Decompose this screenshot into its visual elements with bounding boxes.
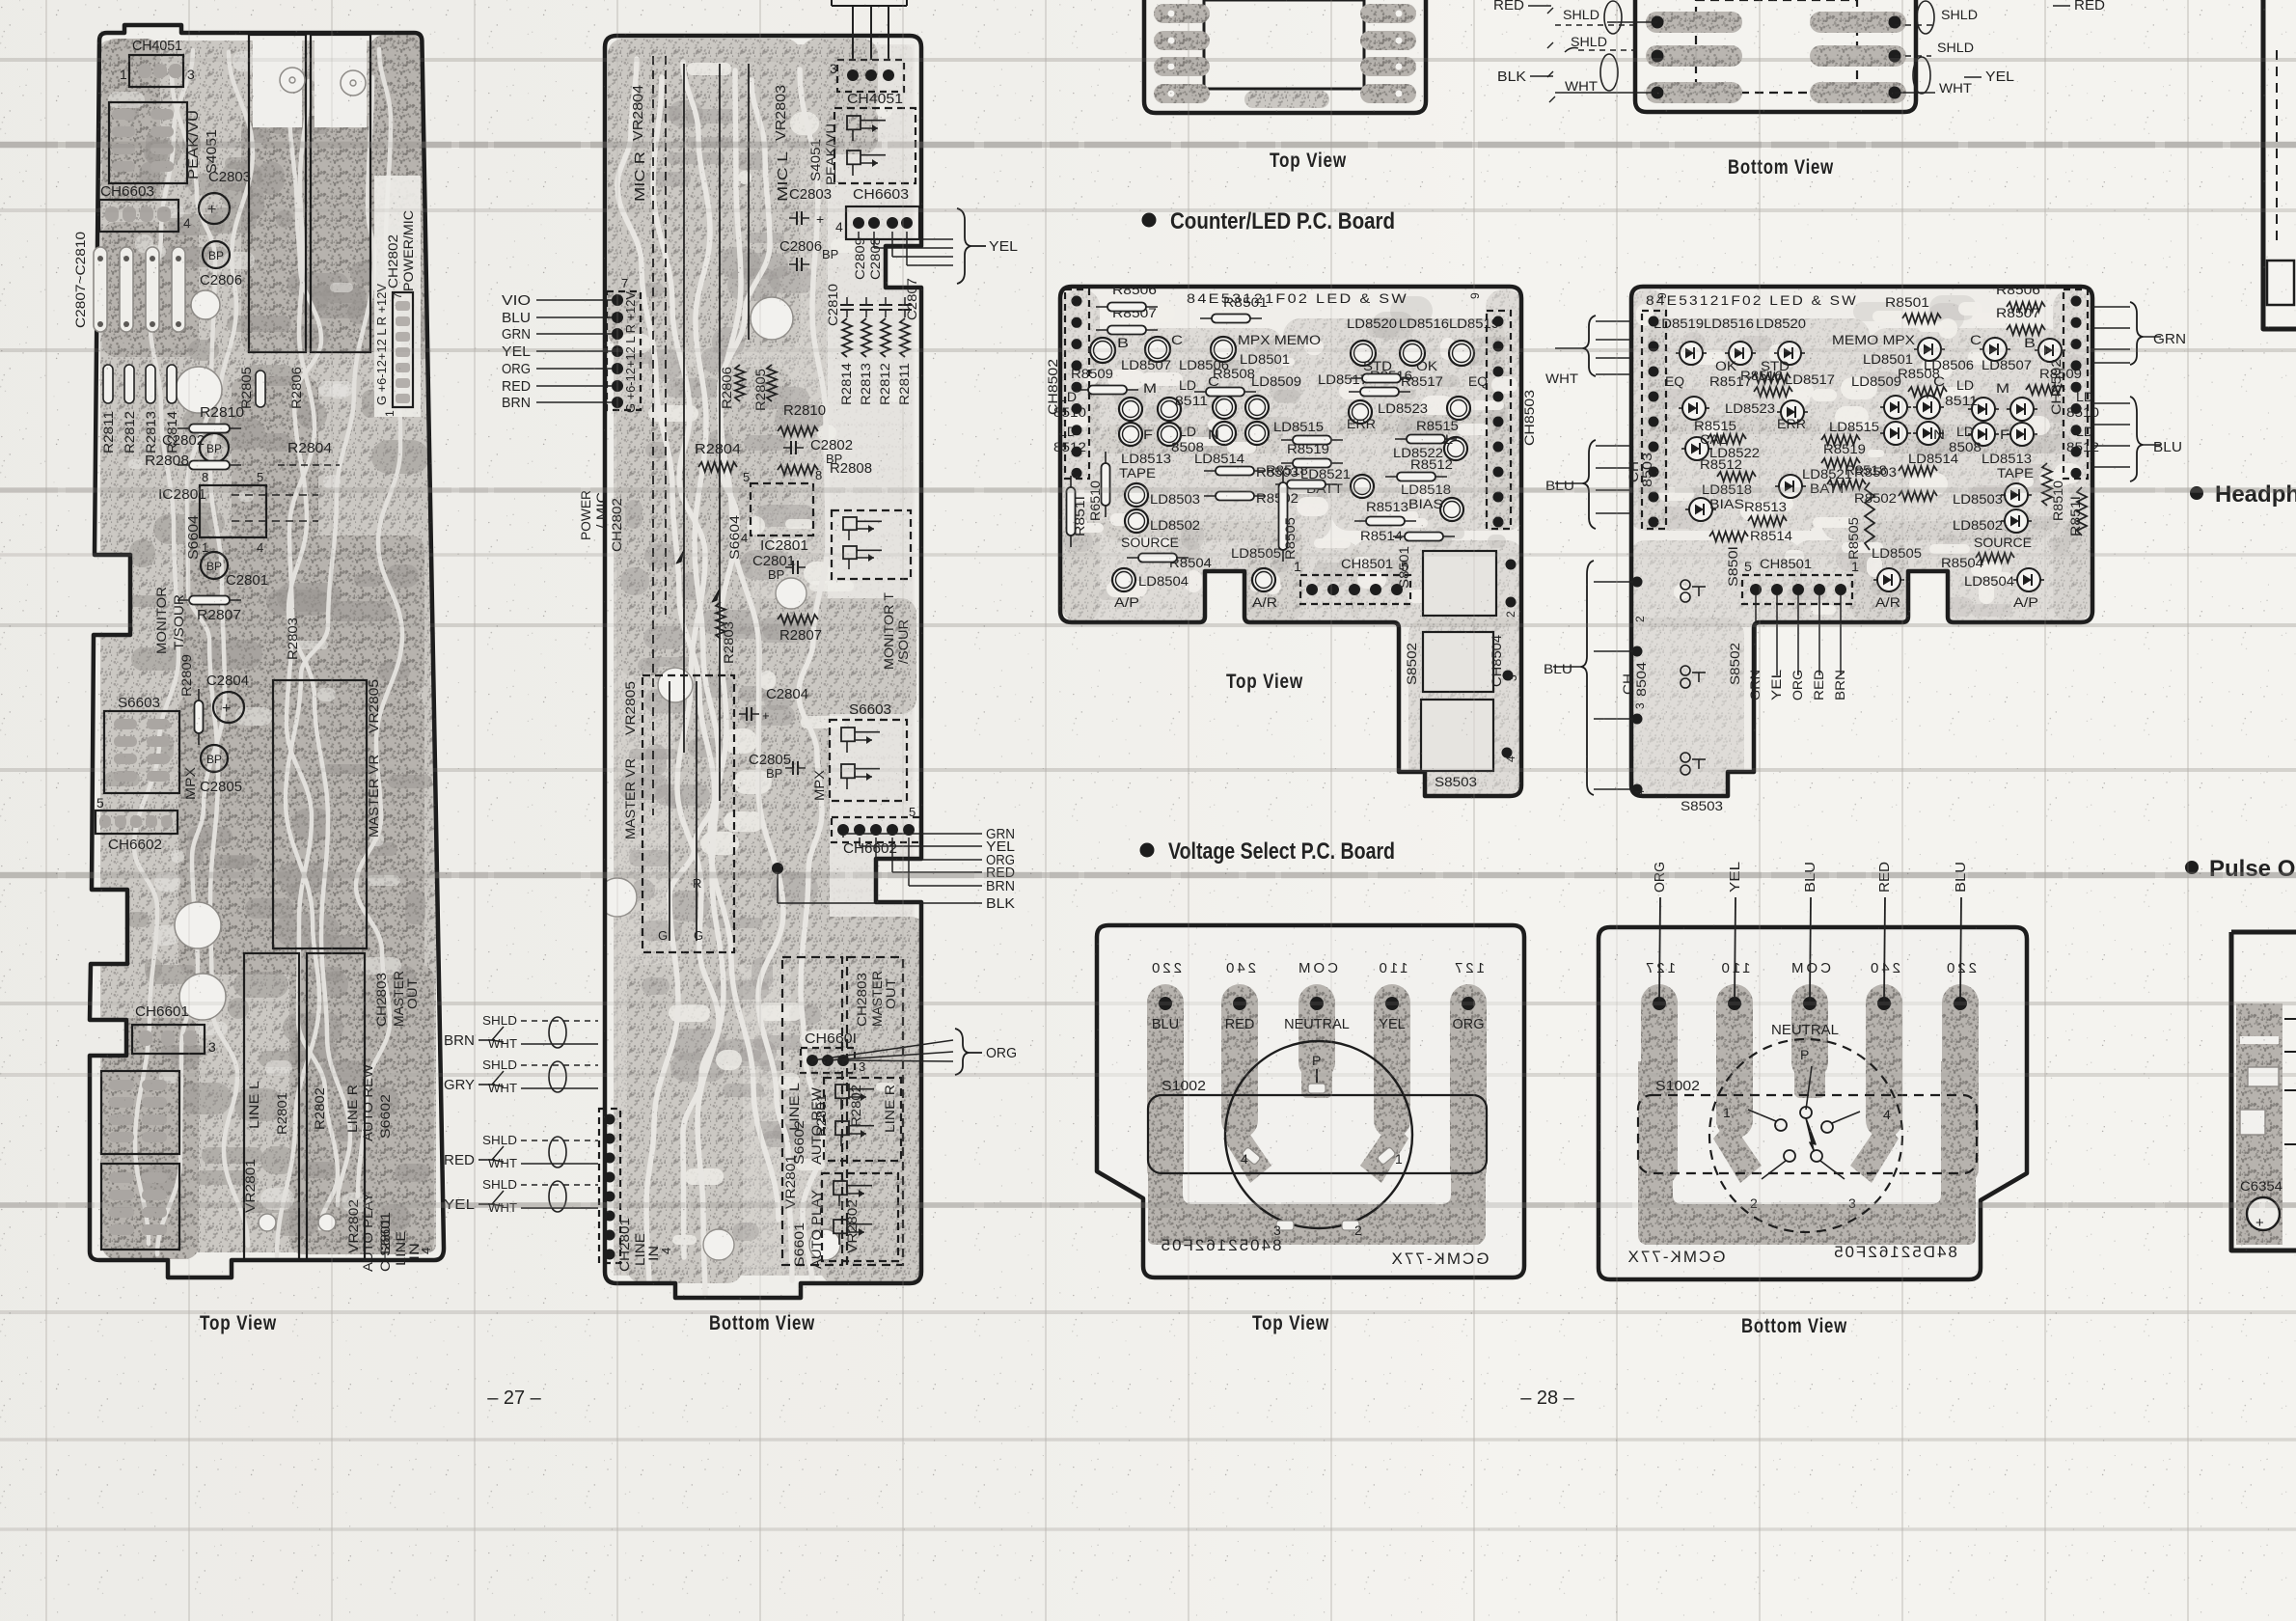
switch S6601 AUTO PLAY (dashed): [822, 1173, 898, 1261]
wire labels GRN YEL ORG RED BRN: [1755, 595, 1757, 675]
switch S4051 PEAK/VU box: [109, 102, 187, 183]
potentiometer VR2803 outline box: [249, 35, 306, 352]
inner component outline: [1204, 0, 1364, 89]
switches S8502 (tact): [1681, 580, 1690, 590]
connector CH2801 LINE IN with shielded wires: [599, 1109, 620, 1263]
board: Voltage Select P.C. board (Top View) outline: [1097, 925, 1524, 1278]
LED pads and labels (counter board top view): [1090, 338, 1115, 363]
pot schematic lines: [652, 56, 654, 815]
copper fingers (mirrored): [1638, 1061, 1976, 1245]
scanner streak bands: [0, 142, 2296, 149]
section header: Counter/LED P.C. Board: [1142, 213, 1157, 228]
copper areas (bottom view, lighter): [608, 39, 801, 347]
connector CH2802 POWER/MIC with wire labels: [607, 291, 641, 410]
capacitor C2806 (BP): [203, 241, 230, 268]
switch S6602 AUTO REW (dashed): [824, 1078, 901, 1161]
capacitor C2802 BP: [790, 441, 792, 454]
partial board top-right corner: [2263, 0, 2296, 329]
bracket to YEL: [858, 232, 860, 239]
IC2801 (dashed): [751, 483, 813, 536]
wire brackets right (GRN/BLU): [2130, 302, 2143, 365]
mounting holes: [191, 290, 220, 319]
pot MASTER VR (dashed): [642, 675, 734, 952]
pot boxes LINE (dashed): [782, 957, 842, 1265]
connector CH8503 (mirrored left): [1642, 311, 1666, 529]
rotor contacts: [1806, 1066, 1812, 1110]
resistors R2806 R2805: [735, 365, 745, 401]
resistors R2811-R2814: [103, 365, 113, 403]
switch S4051 PEAK/VU (dashed): [834, 108, 916, 183]
partial board top-right (Bottom View): [1635, 0, 1916, 112]
CH4051 wires to top edge: [852, 6, 854, 60]
copper areas: [1061, 289, 1100, 622]
board: Voltage Select P.C. board (Bottom View) outline: [1599, 927, 2027, 1279]
switch boxes bottom left: [101, 1071, 179, 1154]
wire brackets left (WHT/BLU): [1583, 316, 1596, 376]
partial board top-centre (Top View): [1144, 0, 1426, 113]
vertical resistors R8505 R8511 R6510: [1282, 471, 1284, 562]
section header: Voltage Select P.C. Board: [1140, 843, 1155, 858]
section header: Pulse OSC (clipped at page edge): [2185, 861, 2199, 874]
resistor R2808: [778, 465, 818, 475]
potentiometer VR2804 outline box: [311, 35, 370, 352]
connector CH4051: [129, 55, 183, 87]
connector CH8501: [1300, 575, 1410, 604]
contact slots: [1242, 1146, 1261, 1165]
capacitor C2802 BP: [200, 433, 229, 462]
resistor R2807: [778, 615, 818, 624]
connector CH8501: [1742, 575, 1852, 604]
connector CH8503: [1487, 311, 1511, 529]
connector CH8502: [1065, 289, 1089, 479]
resistors R2805 R2806: [256, 371, 265, 407]
potentiometer boxes LINE L / LINE R: [244, 953, 299, 1259]
capacitor C2805 BP: [201, 745, 228, 772]
copper fingers BLU RED NEUTRAL YEL ORG: [1148, 1061, 1486, 1245]
resistor R2807: [178, 599, 241, 601]
switch rotor circle S1002: [1225, 1041, 1412, 1228]
connector CH8502 (mirrored right): [2064, 289, 2088, 479]
wires to GRN YEL ORG RED BRN BLK: [842, 834, 844, 838]
switch rotor dashed circle S1002: [1709, 1039, 1902, 1232]
connector CH4051 (bottom): [837, 60, 904, 92]
switches S8501 S8502 S8503 (right extension): [1423, 551, 1496, 616]
section header: Headphone (clipped at page edge): [2190, 486, 2203, 500]
partial Pulse OSC board right edge: [2231, 932, 2296, 1250]
IC2801: [200, 485, 266, 537]
heavy copper areas: [241, 116, 424, 352]
